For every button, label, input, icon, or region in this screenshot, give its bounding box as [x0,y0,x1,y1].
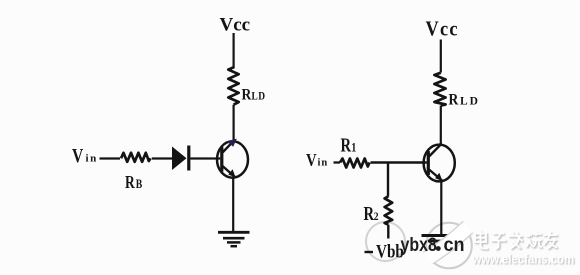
wire Vin to RB [100,157,121,159]
svg-text:Vcc: Vcc [426,17,459,41]
svg-text:in: in [318,158,329,169]
svg-text:LD: LD [460,96,480,108]
watermark chinese characters [476,232,559,250]
wire RLD to collector left [233,105,235,141]
watermark logo circle [426,223,472,269]
svg-text:V: V [306,150,317,171]
svg-text:R: R [341,133,352,156]
label Vin left [72,144,98,166]
svg-text:R: R [125,173,135,192]
watermark circle left [366,222,405,261]
svg-text:1: 1 [351,140,356,154]
resistor RLD right [434,73,445,106]
svg-text:R: R [242,87,252,104]
wire R2 to -Vbb [387,225,389,239]
watermark text ybx8.cn [401,234,465,256]
svg-text:B: B [136,178,143,191]
node Vcc left label [220,15,251,36]
label R1 [341,133,357,156]
label Vin right [306,150,328,171]
svg-text:ybx8: ybx8 [401,234,438,256]
svg-text:Vcc: Vcc [220,15,251,36]
wire Vin to R1 [334,161,341,163]
wire R1 to base [371,161,427,163]
transistor Q2 [424,144,455,181]
watermark swoosh [423,221,473,264]
svg-text:R: R [449,92,459,109]
diode D1 [172,146,189,171]
wire Vcc to RLD right [440,40,442,73]
svg-text:LD: LD [252,91,266,103]
svg-text:2: 2 [374,210,379,223]
svg-text:R: R [364,202,375,225]
svg-text:V: V [72,144,83,166]
ground right [422,236,458,249]
wire RLD to collector right [440,106,442,146]
label RLD right [449,92,480,109]
resistor RB [121,153,151,162]
label R2 [364,202,379,225]
wire RB to diode [152,157,173,159]
label RLD left [242,87,266,104]
wire junction to R2 [387,163,389,197]
resistor RLD left [228,67,238,104]
transistor Q1 [217,139,248,178]
wire Vcc to RLD left [233,33,235,69]
label -Vbb [365,241,404,262]
svg-text:www.elecfans.com: www.elecfans.com [472,252,575,267]
resistor R2 [385,196,393,224]
ground left [218,232,250,246]
node Vcc right label [426,17,459,41]
watermark url www.elecfans.com [472,252,576,268]
wire emitter to ground left [232,178,234,232]
wire emitter to ground right [440,181,442,235]
resistor R1 [340,159,370,168]
svg-text:in: in [86,153,98,165]
svg-text:cn: cn [444,234,465,256]
wire diode to base [190,157,220,159]
label RB [125,173,143,192]
